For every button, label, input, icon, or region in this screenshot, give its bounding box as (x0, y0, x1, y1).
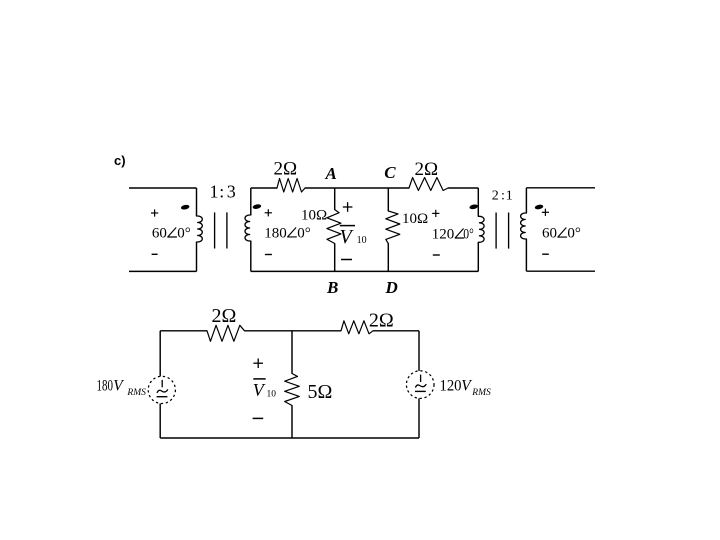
svg-text:c): c) (114, 153, 126, 168)
svg-text:A: A (325, 164, 337, 183)
svg-text:0°: 0° (567, 226, 581, 242)
svg-text:2Ω: 2Ω (369, 310, 394, 332)
svg-text:120: 120 (432, 227, 455, 243)
svg-text:180: 180 (97, 378, 114, 395)
svg-text:0°: 0° (177, 226, 191, 242)
svg-text:10Ω: 10Ω (402, 211, 428, 227)
svg-text:2Ω: 2Ω (212, 305, 237, 327)
svg-text:60: 60 (542, 226, 557, 242)
svg-text:RMS: RMS (126, 388, 146, 398)
svg-text:0°: 0° (297, 225, 311, 241)
svg-text:V: V (113, 378, 124, 395)
svg-text:3: 3 (227, 181, 236, 201)
svg-text:B: B (326, 278, 338, 297)
svg-text:10: 10 (267, 389, 277, 399)
svg-text:180: 180 (264, 225, 287, 241)
svg-text:V: V (461, 378, 472, 395)
svg-text:10Ω: 10Ω (301, 207, 327, 223)
svg-text:2: 2 (492, 189, 499, 204)
svg-text:10: 10 (357, 235, 367, 246)
svg-text:RMS: RMS (471, 388, 491, 398)
svg-text:5Ω: 5Ω (308, 381, 333, 403)
svg-text:D: D (385, 278, 398, 297)
svg-text:2Ω: 2Ω (274, 159, 298, 180)
svg-text:120: 120 (440, 378, 462, 395)
svg-text:1: 1 (506, 189, 513, 204)
svg-text:2Ω: 2Ω (415, 159, 439, 180)
svg-text:0°: 0° (463, 227, 474, 243)
svg-text::: : (501, 189, 505, 204)
svg-text:60: 60 (152, 226, 167, 242)
svg-text:C: C (384, 163, 396, 182)
svg-text:1: 1 (210, 181, 219, 201)
svg-text::: : (219, 181, 224, 201)
